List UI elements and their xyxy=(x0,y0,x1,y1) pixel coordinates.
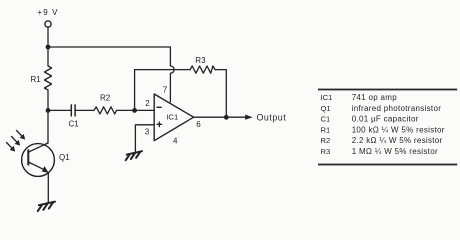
wire: output with arrow xyxy=(194,116,246,118)
R1 label xyxy=(31,75,42,84)
svg-text:C1: C1 xyxy=(69,120,80,129)
pin 2 label xyxy=(145,99,150,108)
svg-text:R1: R1 xyxy=(31,75,42,84)
R3 label xyxy=(195,56,206,65)
transistor Q1 envelope circle xyxy=(22,144,55,177)
C1 label xyxy=(69,120,80,129)
svg-text:6: 6 xyxy=(196,120,201,129)
wire: +9V terminal to top junction xyxy=(47,27,49,47)
pin 7 label xyxy=(163,86,168,95)
resistor R2 xyxy=(94,107,117,114)
+9V supply label xyxy=(38,8,59,17)
infrared light arrow 2 xyxy=(12,137,18,143)
svg-text:1 MΩ ¼ W 5% resistor: 1 MΩ ¼ W 5% resistor xyxy=(352,147,438,156)
parts list top rule xyxy=(318,89,457,91)
wire: node to op-amp pin 2 xyxy=(135,109,155,111)
svg-text:+9 V: +9 V xyxy=(38,8,59,17)
svg-text:3: 3 xyxy=(145,128,150,137)
node: inverting input junction xyxy=(132,108,137,113)
svg-text:741 op amp: 741 op amp xyxy=(352,93,398,102)
svg-text:IC1: IC1 xyxy=(166,112,178,121)
wire: junction to C1 xyxy=(48,109,71,111)
svg-text:Q1: Q1 xyxy=(59,153,70,162)
Q1 emitter lead with arrow xyxy=(28,162,46,171)
op-amp plus sign xyxy=(157,123,162,125)
Q1 collector lead xyxy=(28,143,48,152)
+9V terminal circle xyxy=(45,21,51,27)
svg-text:2: 2 xyxy=(145,99,150,108)
pin 3 label xyxy=(145,128,150,137)
svg-text:R2: R2 xyxy=(100,93,111,102)
node: output junction xyxy=(224,115,229,120)
pin 4 label xyxy=(173,137,178,146)
op-amp IC1 triangle xyxy=(154,94,193,141)
svg-text:7: 7 xyxy=(163,86,168,95)
svg-text:Q1: Q1 xyxy=(321,104,331,113)
Q1 label xyxy=(59,153,70,162)
svg-text:0.01 µF capacitor: 0.01 µF capacitor xyxy=(352,115,419,124)
Q1 base bar xyxy=(27,150,29,164)
node: V+ rail junction xyxy=(46,45,51,50)
svg-text:IC1: IC1 xyxy=(321,93,333,102)
ground (Q1 emitter) xyxy=(38,202,55,211)
wire: top rail to op-amp pin 7 feed xyxy=(48,46,170,48)
pin 6 label xyxy=(196,120,201,129)
svg-text:4: 4 xyxy=(173,137,178,146)
wire: R3 to output node xyxy=(215,70,226,118)
svg-text:infrared phototransistor: infrared phototransistor xyxy=(352,104,442,113)
svg-text:R3: R3 xyxy=(321,147,331,156)
infrared light arrow 3 xyxy=(7,143,13,149)
svg-text:R2: R2 xyxy=(321,136,331,145)
wire: junction down to Q1 collector xyxy=(47,110,49,143)
wire: feedback riser from inverting node xyxy=(135,70,190,111)
resistor R3 xyxy=(190,66,215,73)
svg-text:R1: R1 xyxy=(321,125,331,134)
svg-text:Output: Output xyxy=(257,113,287,123)
svg-text:100 kΩ ¼ W 5% resistor: 100 kΩ ¼ W 5% resistor xyxy=(352,125,445,134)
parts list bottom rule xyxy=(318,164,457,166)
capacitor C1 xyxy=(70,105,72,116)
IC1 label xyxy=(166,112,178,121)
Output label xyxy=(257,113,287,123)
wire: Q1 emitter to ground xyxy=(47,173,49,202)
wire: pin7 vertical with crossover hop xyxy=(170,47,174,102)
op-amp minus sign xyxy=(157,106,161,108)
resistor R1 xyxy=(44,47,51,110)
svg-text:R3: R3 xyxy=(195,56,206,65)
svg-text:C1: C1 xyxy=(321,115,331,124)
ground (op-amp pin 3) xyxy=(126,151,142,160)
wire: R2 to inverting node xyxy=(117,109,135,111)
svg-text:2.2 kΩ ¼ W 5% resistor: 2.2 kΩ ¼ W 5% resistor xyxy=(352,136,443,145)
infrared light arrow 1 xyxy=(17,131,23,137)
node: R1/C1/collector junction xyxy=(46,108,51,113)
wire: op-amp pin 3 to ground xyxy=(135,125,154,152)
wire: C1 to R2 xyxy=(75,109,94,111)
R2 label xyxy=(100,93,111,102)
